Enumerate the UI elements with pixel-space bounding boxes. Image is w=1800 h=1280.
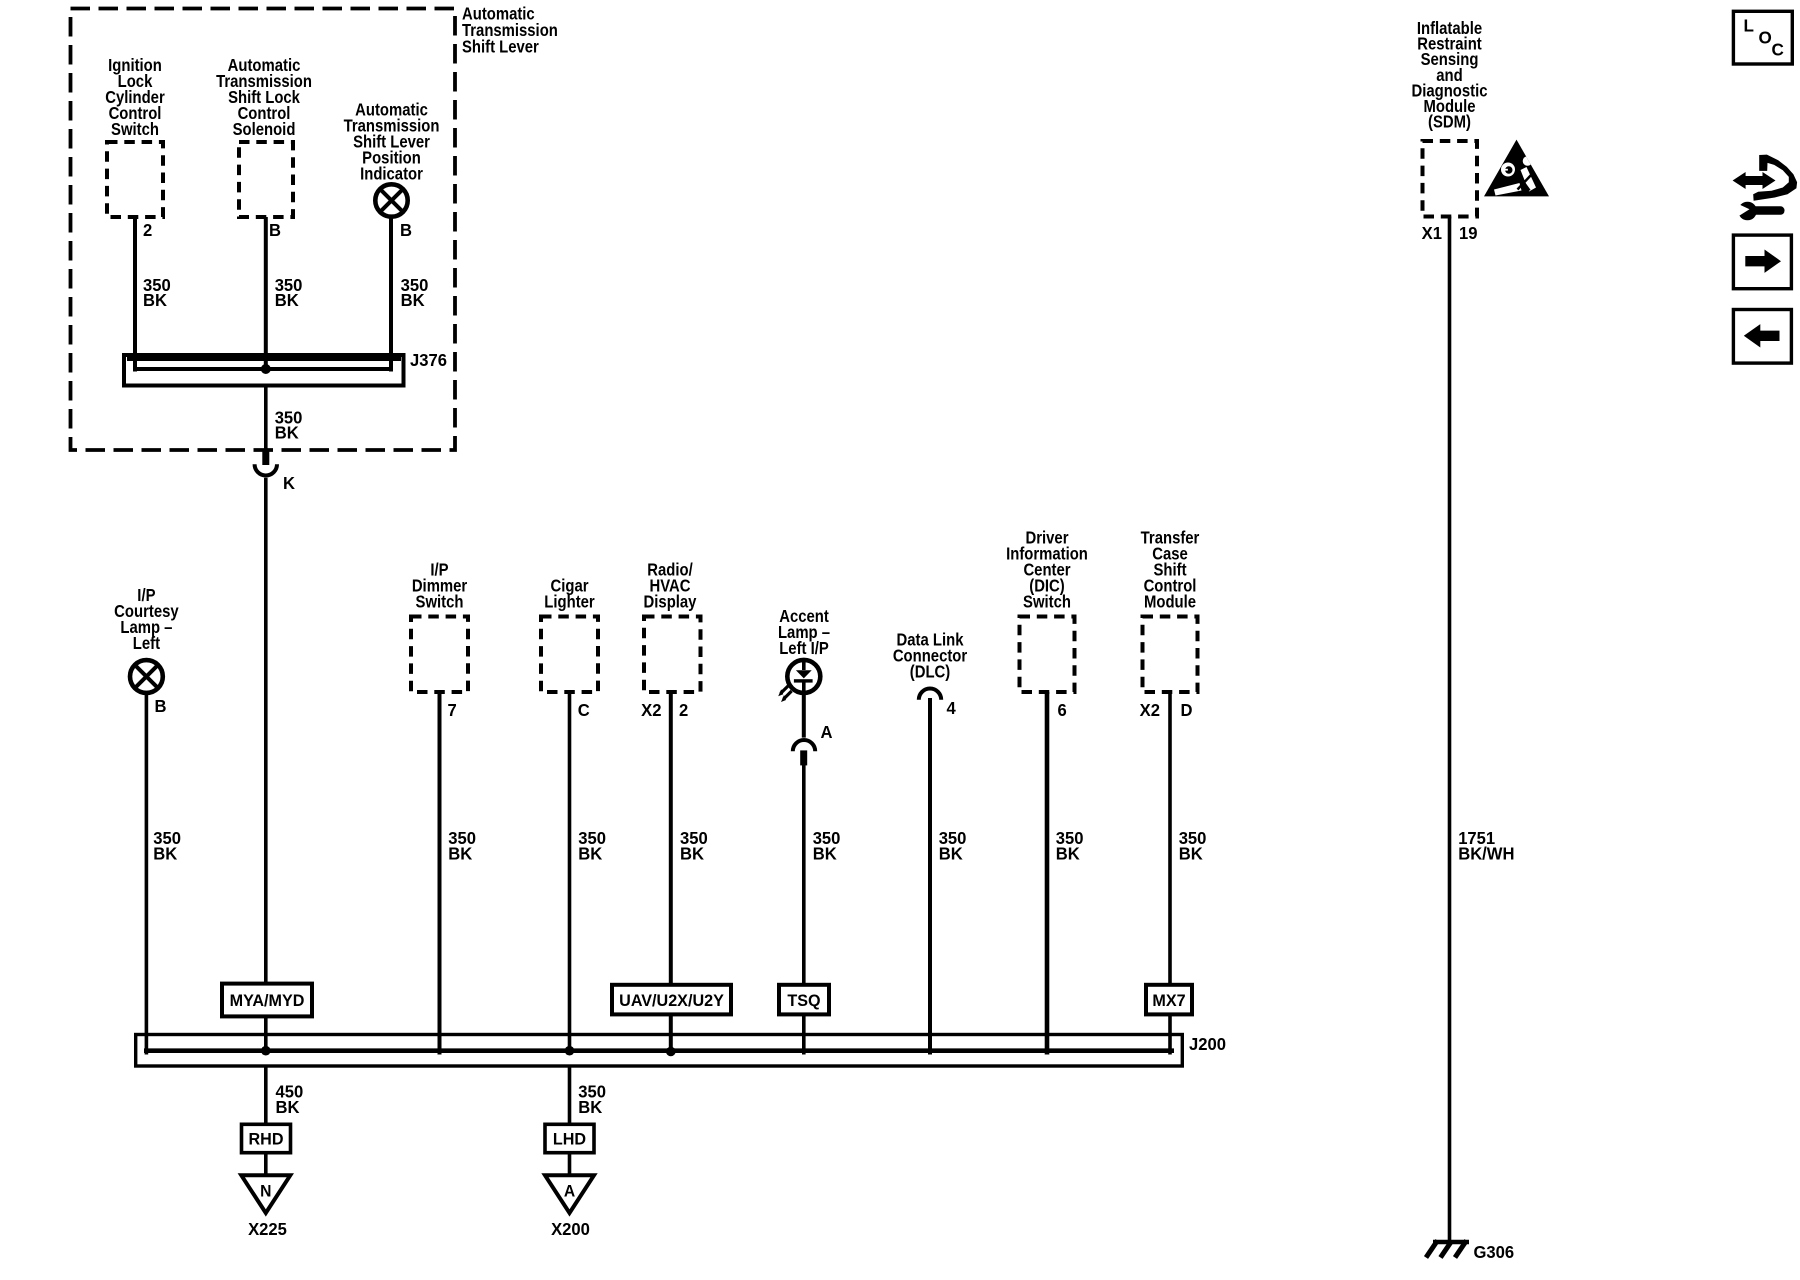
wire: 350 BK from connector A to J200 bbox=[802, 765, 806, 1055]
splice pack J376 bbox=[124, 355, 404, 386]
svg-text:J376: J376 bbox=[410, 351, 447, 370]
svg-text:K: K bbox=[283, 474, 296, 493]
connector arc of DLC bbox=[919, 689, 941, 700]
svg-text:2: 2 bbox=[143, 221, 152, 240]
connector triangle N (X225) bbox=[241, 1175, 290, 1213]
junction dot at J376 bbox=[261, 364, 271, 374]
svg-text:2: 2 bbox=[679, 701, 688, 720]
svg-text:350BK: 350BK bbox=[275, 276, 303, 311]
wire: 350 BK from Radio/HVAC Display to J200 bbox=[669, 692, 673, 1055]
svg-text:X200: X200 bbox=[551, 1220, 590, 1239]
svg-text:J200: J200 bbox=[1189, 1035, 1226, 1054]
wire from LHD to connector X200 bbox=[568, 1153, 572, 1176]
option box RHD bbox=[242, 1124, 291, 1152]
svg-text:A: A bbox=[821, 723, 833, 742]
svg-text:350BK: 350BK bbox=[1056, 829, 1084, 864]
svg-text:B: B bbox=[269, 221, 281, 240]
LED symbol: Accent Lamp bbox=[778, 660, 820, 702]
svg-text:UAV/U2X/U2Y: UAV/U2X/U2Y bbox=[619, 990, 724, 1009]
icon: diagnostic hook and wrench bbox=[1731, 155, 1797, 221]
svg-text:350BK: 350BK bbox=[448, 829, 476, 864]
svg-text:Radio/HVACDisplay: Radio/HVACDisplay bbox=[644, 560, 697, 611]
svg-text:CigarLighter: CigarLighter bbox=[544, 576, 595, 611]
svg-text:C: C bbox=[1772, 39, 1785, 60]
svg-text:MYA/MYD: MYA/MYD bbox=[230, 991, 305, 1010]
wire from Accent Lamp to in-line connector A bbox=[802, 692, 806, 738]
svg-text:IgnitionLockCylinderControlSwi: IgnitionLockCylinderControlSwitch bbox=[105, 56, 165, 139]
wire: 350 BK from I/P Courtesy Lamp to J200 bbox=[145, 693, 149, 1055]
option box TSQ bbox=[779, 985, 829, 1015]
splice pack J200 bbox=[136, 1035, 1183, 1067]
svg-text:350BK: 350BK bbox=[275, 408, 303, 443]
junction dot at J200 (cigar lighter wire) bbox=[565, 1046, 575, 1056]
junction dot at J200 (MYA/MYD wire) bbox=[261, 1046, 271, 1056]
svg-text:X225: X225 bbox=[248, 1220, 287, 1239]
icon: LOC reference box bbox=[1733, 11, 1792, 64]
connector triangle A (X200) bbox=[545, 1175, 594, 1213]
svg-text:350BK: 350BK bbox=[578, 1082, 606, 1117]
svg-text:O: O bbox=[1759, 27, 1772, 48]
svg-text:350BK: 350BK bbox=[813, 829, 841, 864]
option box UAV/U2X/U2Y bbox=[612, 985, 731, 1015]
svg-text:D: D bbox=[1181, 701, 1193, 720]
option box LHD bbox=[545, 1124, 594, 1152]
wire: 350 BK from J200 to LHD bbox=[568, 1066, 572, 1124]
junction dot at J200 (radio wire) bbox=[666, 1047, 676, 1057]
svg-text:B: B bbox=[400, 221, 412, 240]
svg-text:350BK: 350BK bbox=[939, 829, 967, 864]
wire: 350 BK from Cigar Lighter through J200 to LHD bbox=[568, 692, 572, 1051]
wire: 350 BK from J376 to in-line connector K bbox=[264, 386, 268, 452]
ground G306 bbox=[1426, 1241, 1469, 1258]
svg-text:C: C bbox=[578, 701, 590, 720]
svg-text:6: 6 bbox=[1058, 701, 1067, 720]
wire: 350 BK from K down to MYA/MYD and J200 bbox=[264, 478, 268, 1051]
svg-text:X2: X2 bbox=[1140, 701, 1160, 720]
svg-text:4: 4 bbox=[947, 699, 957, 718]
svg-text:TSQ: TSQ bbox=[787, 990, 820, 1009]
icon: back arrow box bbox=[1733, 310, 1791, 364]
wire from RHD to connector X225 bbox=[264, 1153, 268, 1176]
svg-text:LHD: LHD bbox=[553, 1129, 586, 1148]
wire: 350 BK from solenoid through J376 bbox=[264, 217, 268, 369]
svg-text:350BK: 350BK bbox=[680, 829, 708, 864]
svg-text:7: 7 bbox=[448, 701, 457, 720]
svg-text:RHD: RHD bbox=[249, 1129, 284, 1148]
wire: 350 BK from Ignition Lock Cylinder Control Switch to J376 bbox=[133, 217, 137, 372]
svg-text:X2: X2 bbox=[641, 701, 661, 720]
svg-text:L: L bbox=[1744, 15, 1755, 36]
in-line connector K (male bar + female arc) bbox=[262, 450, 269, 465]
svg-text:19: 19 bbox=[1459, 224, 1477, 243]
wire: 1751 BK/WH from SDM to G306 bbox=[1448, 217, 1452, 1241]
svg-text:A: A bbox=[564, 1182, 576, 1200]
wire: 350 BK from Transfer Case module to J200 bbox=[1168, 692, 1172, 1055]
svg-text:350BK: 350BK bbox=[401, 276, 429, 311]
component box: Automatic Transmission Shift Lever (dashed enclosure) bbox=[71, 9, 456, 451]
svg-text:X1: X1 bbox=[1422, 224, 1442, 243]
wire: 350 BK from I/P Dimmer Switch to J200 bbox=[438, 692, 442, 1055]
svg-text:G306: G306 bbox=[1474, 1243, 1515, 1262]
option box MYA/MYD bbox=[222, 984, 312, 1017]
svg-text:350BK: 350BK bbox=[578, 829, 606, 864]
wire: 450 BK from J200 to RHD bbox=[264, 1066, 268, 1124]
svg-text:350BK: 350BK bbox=[153, 829, 181, 864]
svg-text:N: N bbox=[260, 1182, 271, 1200]
wire: 350 BK from DLC to J200 bbox=[928, 698, 932, 1055]
svg-text:B: B bbox=[155, 697, 167, 716]
svg-text:350BK: 350BK bbox=[143, 276, 171, 311]
wire: 350 BK from Position Indicator to J376 bbox=[389, 217, 393, 372]
wire: 350 BK from DIC Switch to J200 bbox=[1045, 692, 1050, 1055]
lamp symbol: Shift Lever Position Indicator bbox=[375, 184, 407, 216]
option box MX7 bbox=[1146, 985, 1192, 1015]
svg-text:MX7: MX7 bbox=[1152, 990, 1185, 1009]
svg-text:350BK: 350BK bbox=[1179, 829, 1207, 864]
lamp symbol: I/P Courtesy Lamp - Left bbox=[130, 660, 163, 693]
icon: forward arrow box bbox=[1733, 235, 1791, 289]
svg-text:450BK: 450BK bbox=[276, 1082, 304, 1117]
svg-text:AccentLamp –Left I/P: AccentLamp –Left I/P bbox=[778, 607, 830, 658]
in-line connector A (female arc + male bar) bbox=[793, 740, 815, 751]
